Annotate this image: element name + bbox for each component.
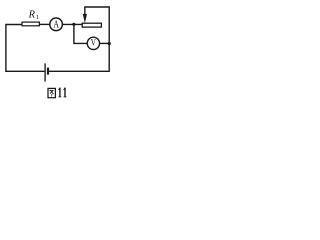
rheostat slider arrow riser bbox=[84, 6, 86, 15]
wire: ammeter to rheostat (through node a) bbox=[63, 23, 82, 25]
node b (junction dot) bbox=[108, 42, 111, 45]
wire: voltmeter to right side wire (node b) bbox=[100, 42, 110, 44]
wire: left side (top-left corner down to bottom-left corner) bbox=[6, 25, 22, 72]
ammeter A (circle) bbox=[50, 18, 63, 31]
wire: slider top wire and right side down to bottom-right corner bbox=[85, 7, 109, 72]
resistor R1 (box) bbox=[22, 22, 39, 26]
rheostat slider arrowhead bbox=[83, 14, 87, 23]
svg-text:1: 1 bbox=[36, 14, 39, 21]
wire: resistor R1 to ammeter bbox=[40, 23, 50, 25]
rheostat R2 (box) bbox=[82, 23, 101, 27]
svg-text:V: V bbox=[91, 39, 96, 49]
node a (junction dot) bbox=[72, 23, 75, 26]
wire: bottom right segment from battery to right corner bbox=[49, 70, 109, 72]
caption digit 1 (second) bbox=[64, 88, 67, 97]
svg-text:R: R bbox=[28, 10, 36, 21]
caption character 图 (drawn) bbox=[48, 88, 55, 97]
caption digit 1 (first) bbox=[58, 88, 61, 97]
battery cell: short thick plate (negative) bbox=[47, 68, 49, 75]
wire: voltmeter tap from node a down and right to voltmeter bbox=[74, 24, 87, 43]
svg-text:A: A bbox=[53, 19, 59, 31]
battery cell: long plate (positive) bbox=[44, 63, 46, 81]
voltmeter V (circle) bbox=[87, 37, 99, 49]
wire: bottom left segment to battery bbox=[5, 70, 44, 72]
